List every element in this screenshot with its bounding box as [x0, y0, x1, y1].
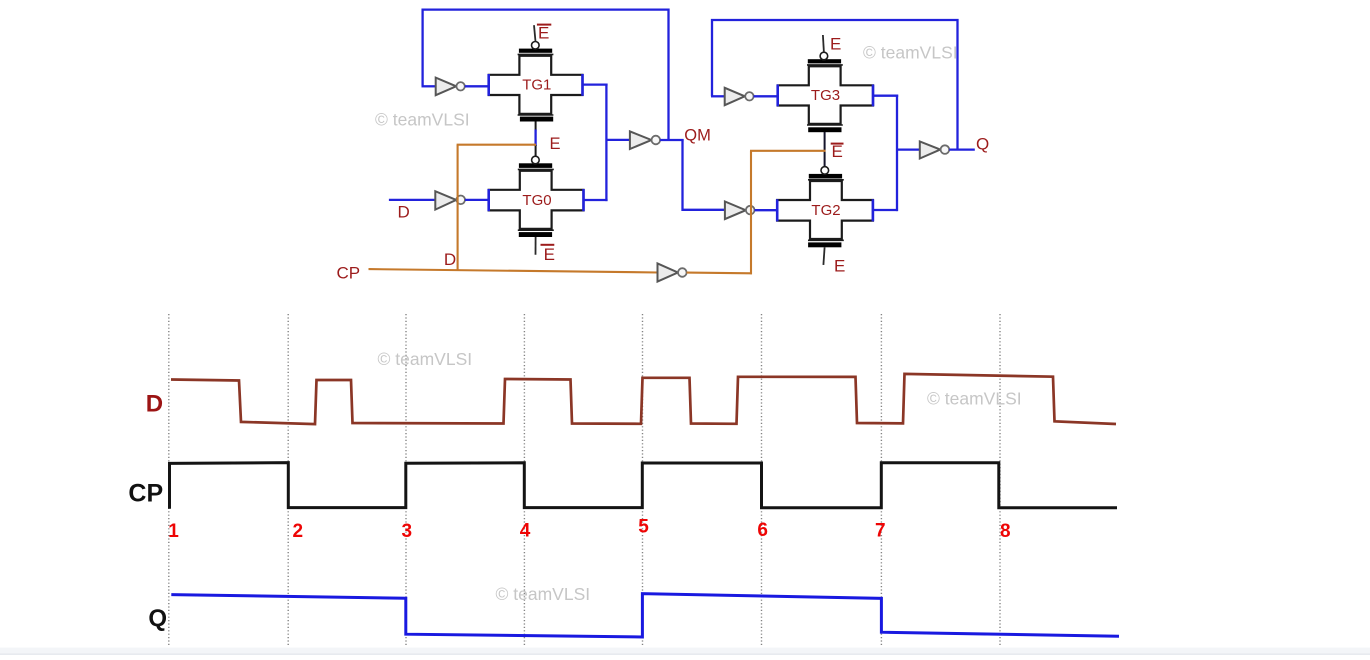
wire feedback loop left (QM back to U1) [423, 10, 669, 140]
svg-text:Q: Q [148, 605, 167, 632]
gridline 1 [168, 314, 170, 646]
inverter U1 (feedback, drives TG1) [436, 78, 465, 96]
wire U6 output to node Q [949, 148, 975, 150]
wire U1 input stub [422, 85, 437, 87]
svg-text:6: 6 [757, 520, 768, 541]
wire D input [389, 199, 436, 201]
svg-text:© teamVLSI: © teamVLSI [863, 42, 958, 62]
wire TG3 gate stub to E [823, 35, 824, 52]
label E-bar (below TG0) [541, 245, 555, 264]
waveform CP [170, 463, 1118, 509]
svg-text:E: E [538, 23, 549, 42]
transmission gate TG3 body [778, 52, 873, 132]
svg-text:Q: Q [976, 135, 989, 154]
gridline 6 [761, 314, 763, 646]
wire vertical bus (TG1/TG0 outputs) [605, 84, 607, 202]
wire U4 output to TG2 left [755, 209, 779, 211]
footer strip [0, 648, 1370, 655]
svg-text:5: 5 [638, 517, 649, 538]
wire TG1 gate stub to E-bar [534, 25, 536, 41]
svg-text:© teamVLSI: © teamVLSI [375, 110, 470, 130]
wire branch to U3 input [606, 139, 630, 141]
wire branch to U6 input [897, 148, 921, 150]
svg-text:7: 7 [875, 521, 886, 542]
wire TG1 right to bus [583, 83, 608, 85]
svg-text:1: 1 [168, 521, 179, 542]
svg-text:E: E [550, 135, 561, 153]
svg-text:E: E [832, 142, 843, 161]
svg-text:E: E [830, 34, 841, 53]
wire CP input [369, 269, 659, 272]
gridline 3 [405, 314, 407, 646]
wire clock vertical left (to node E) [457, 145, 459, 271]
transmission gate TG2 body [777, 167, 873, 248]
transmission gate TG0 body [489, 156, 584, 237]
svg-text:D: D [146, 391, 163, 418]
wire QM down and right to U4 [683, 139, 726, 210]
wire U5 input stub [711, 95, 726, 97]
wire U1 output to TG1 left [465, 85, 489, 87]
wire clock horizontal right (to node E-bar) [750, 150, 826, 152]
inverter U3 (QM driver) [630, 131, 660, 149]
gridline 8 [999, 314, 1001, 646]
wire TG3 right to bus [873, 95, 898, 97]
svg-text:CP: CP [337, 264, 361, 283]
gridline 4 [523, 314, 525, 646]
svg-text:2: 2 [293, 521, 304, 542]
svg-text:CP: CP [128, 480, 163, 508]
svg-text:© teamVLSI: © teamVLSI [496, 584, 591, 604]
wire vertical bus (TG3/TG2 outputs) [896, 95, 898, 212]
wire U3 output to node QM [660, 139, 684, 141]
svg-text:TG2: TG2 [811, 202, 840, 219]
label E-bar (above TG1) [537, 23, 551, 42]
gridline 2 [287, 314, 289, 646]
svg-text:TG3: TG3 [811, 87, 840, 104]
svg-text:© teamVLSI: © teamVLSI [927, 389, 1022, 409]
svg-text:© teamVLSI: © teamVLSI [378, 349, 473, 369]
svg-text:E: E [544, 245, 555, 264]
inverter U4 (drives TG2) [725, 202, 755, 220]
inverter U6 (Q driver) [920, 142, 949, 159]
wire U2 output to TG0 left [465, 199, 489, 201]
wire node E-bar link TG3 to TG2 [824, 132, 826, 167]
svg-text:4: 4 [520, 521, 531, 542]
waveform Q [171, 594, 1119, 637]
svg-text:TG1: TG1 [522, 77, 551, 94]
wire TG0 bottom gate stub [535, 237, 537, 255]
gridline 5 [642, 314, 644, 646]
gridline 7 [880, 314, 882, 646]
svg-text:D: D [398, 202, 410, 221]
svg-text:E: E [834, 257, 845, 276]
svg-text:D: D [444, 250, 456, 269]
inverter U2 (D input) [435, 191, 465, 209]
wire node E link TG1 to TG0 [535, 122, 537, 158]
wire TG0 right to bus [584, 199, 608, 201]
svg-text:3: 3 [402, 521, 413, 542]
wire TG2 right to bus [873, 209, 898, 211]
svg-text:QM: QM [684, 126, 711, 144]
wire U5 output to TG3 left [754, 95, 778, 97]
waveform D [171, 374, 1116, 424]
wire TG2 bottom gate stub [823, 247, 824, 265]
wire feedback loop right (Q back to U5) [712, 20, 958, 150]
svg-text:TG0: TG0 [522, 192, 551, 209]
svg-text:8: 8 [1000, 521, 1011, 542]
wire clock vertical right (to node E-bar) [750, 151, 752, 274]
inverter U7 (clock inverter) [658, 263, 687, 281]
transmission gate TG1 body [489, 42, 583, 122]
wire U7 output to right clock rail [687, 272, 752, 275]
label E-bar (node between TG3 and TG2) [831, 142, 844, 161]
inverter U5 (drives TG3) [725, 88, 754, 105]
wire clock horizontal left (to node E) [457, 144, 536, 146]
